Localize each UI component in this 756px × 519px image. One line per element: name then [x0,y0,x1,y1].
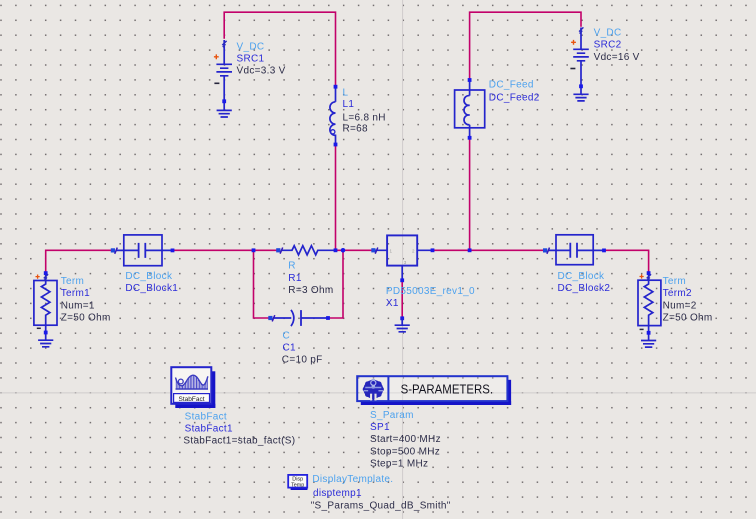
svg-text:SRC1: SRC1 [237,54,265,65]
port Term1 [34,271,57,340]
svg-text:Temp: Temp [291,482,304,488]
svg-text:SRC2: SRC2 [594,40,622,51]
node junction DC_Feed bus [468,248,472,252]
wire SRC1 top to L1 top [224,12,335,87]
svg-text:DC_Block: DC_Block [558,271,606,282]
label C C1 C=10 pF [282,330,323,365]
label DC_Block DC_Block1 [125,271,178,294]
svg-text:DC_Block2: DC_Block2 [558,283,611,294]
wire DC_Block1 to R1 [173,249,277,251]
label DisplayTemplate disptemp1 [311,474,451,511]
ground (SRC1) [217,110,232,117]
svg-text:R=68: R=68 [343,123,369,134]
node junction C1 right branch [341,248,346,253]
label L L1 values [343,87,386,134]
label V_DC SRC2 Vdc=16 V [594,27,640,62]
wire X1 right pin to DC_Block2 [433,249,544,251]
page boundary vertical line [402,0,404,519]
label DC_Block DC_Block2 [558,271,611,294]
wire Term1 to bus [46,250,112,273]
svg-text:L: L [343,87,349,98]
ground (Term2) [641,341,656,348]
svg-text:L1: L1 [343,99,355,110]
wire DC_Feed top up and over to SRC2 top [470,12,581,80]
svg-text:Vdc=3.3 V: Vdc=3.3 V [237,66,286,77]
DisplayTemplate icon [288,475,307,490]
svg-text:Vdc=16 V: Vdc=16 V [594,52,640,63]
page boundary horizontal line [0,392,756,394]
S-PARAMETERS simulation block SP1 [357,376,511,405]
svg-text:PD55003E_rev1_0: PD55003E_rev1_0 [386,286,475,297]
svg-text:Z=50 Ohm: Z=50 Ohm [663,313,713,324]
transistor X1 PD55003E box [371,235,434,325]
ground (Term1) [38,340,53,347]
svg-text:C=10 pF: C=10 pF [282,355,323,366]
label Term Term1 Num=1 Z=50 Ohm [61,276,111,324]
ground (SRC2) [573,94,588,101]
svg-text:StabFact: StabFact [178,396,204,403]
svg-text:StabFact1=stab_fact(S): StabFact1=stab_fact(S) [183,436,295,447]
label DC_Feed DC_Feed2 [489,80,540,104]
ground (X1) [395,325,410,332]
wire DC_Feed bottom to bus junction [469,138,471,251]
svg-text:Term2: Term2 [663,288,692,299]
label PD55003E_rev1_0 X1 [386,286,475,309]
label StabFact StabFact1 [183,411,295,446]
svg-text:R: R [288,261,296,272]
label S_Param SP1 sweep values [370,410,441,470]
voltage source V_DC SRC2 [570,27,588,94]
svg-text:StabFact1: StabFact1 [185,423,233,434]
DC_Block component DC_Block1 [111,235,175,266]
svg-text:Stop=500 MHz: Stop=500 MHz [370,446,440,457]
svg-text:Term: Term [61,276,84,287]
wire C1 branch right [328,250,343,318]
wire C1 branch left [254,250,269,318]
svg-text:L=6.8 nH: L=6.8 nH [343,112,386,123]
resistor R1 [276,246,335,255]
wire X1 bottom to ground [401,280,403,318]
svg-text:disptemp1: disptemp1 [313,488,362,499]
svg-text:Z=50 Ohm: Z=50 Ohm [61,313,111,324]
svg-text:SP1: SP1 [370,422,390,433]
capacitor C1 [268,310,330,326]
svg-text:C: C [283,330,291,341]
inductor L1 [330,85,337,147]
svg-text:DC_Block1: DC_Block1 [125,283,178,294]
svg-text:Term: Term [663,276,686,287]
svg-text:V_DC: V_DC [594,27,622,38]
svg-text:Start=400 MHz: Start=400 MHz [370,434,441,445]
svg-text:X1: X1 [386,298,399,309]
node junction C1 left branch [252,248,256,252]
port Term2 [638,271,661,340]
svg-text:DC_Feed: DC_Feed [489,80,534,91]
wire L1 bottom to main bus [335,145,337,251]
StabFact measurement icon [171,367,215,408]
svg-text:DC_Block: DC_Block [125,271,173,282]
svg-text:StabFact: StabFact [185,411,227,422]
label R R1 R=3 Ohm [288,261,333,296]
svg-text:DC_Feed2: DC_Feed2 [489,92,540,103]
svg-text:Num=2: Num=2 [663,300,697,311]
svg-text:R=3 Ohm: R=3 Ohm [288,285,333,296]
svg-text:V_DC: V_DC [237,41,265,52]
svg-text:DisplayTemplate.: DisplayTemplate. [312,474,393,485]
svg-text:S-PARAMETERS.: S-PARAMETERS. [401,383,494,397]
svg-text:R1: R1 [288,273,302,284]
svg-text:C1: C1 [283,343,297,354]
voltage source V_DC SRC1 [214,40,232,110]
svg-text:S_Param: S_Param [370,410,414,421]
wire DC_Block2 to Term2 [604,250,649,273]
label Term Term2 Num=2 Z=50 Ohm [663,276,713,324]
svg-text:Term1: Term1 [61,288,90,299]
wire R1/C1 node to X1 left pin [336,249,372,251]
svg-text:Num=1: Num=1 [61,300,95,311]
svg-text:"S_Params_Quad_dB_Smith": "S_Params_Quad_dB_Smith" [311,501,451,512]
DC_Feed component DC_Feed2 [455,78,485,140]
DC_Block component DC_Block2 [543,235,606,265]
svg-text:Step=1 MHz: Step=1 MHz [370,459,428,470]
node junction at R1 right / L1 [334,248,338,252]
label V_DC SRC1 Vdc=3.3 V [237,41,286,76]
